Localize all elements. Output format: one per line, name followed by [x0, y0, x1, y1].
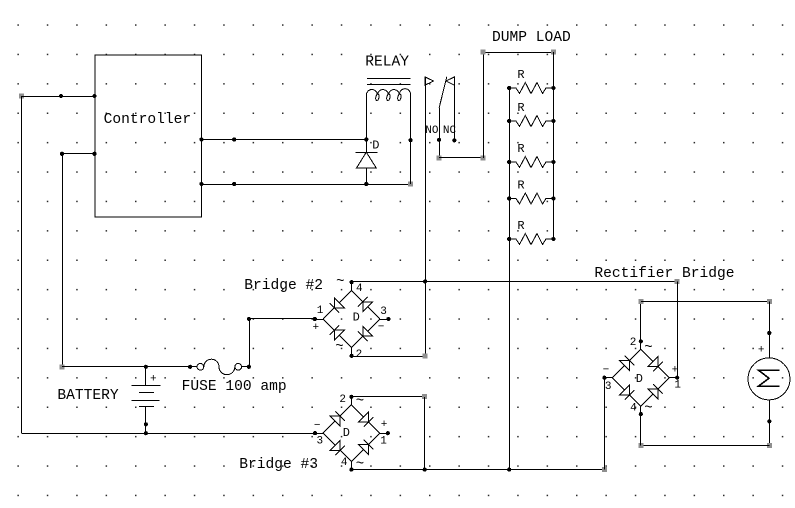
wire NO contact to dump load — [439, 155, 485, 160]
svg-text:1: 1 — [674, 380, 681, 392]
label Bridge #2 — [244, 278, 323, 294]
label rectifier tilde bottom — [644, 400, 652, 416]
wire controller to relay top — [199, 137, 368, 141]
label FUSE 100 amp — [182, 379, 287, 395]
svg-text:D: D — [353, 310, 360, 324]
svg-text:RELAY: RELAY — [365, 55, 409, 71]
wire bottom battery bus — [22, 431, 316, 435]
label NC — [443, 125, 457, 137]
label Bridge #3 tilde bottom — [356, 456, 364, 472]
svg-text:~: ~ — [335, 339, 343, 355]
svg-text:+: + — [758, 344, 765, 356]
label rectifier pin 2 — [630, 337, 637, 349]
wire Bridge #2 pin 4 to rectifier pin 1 — [352, 279, 680, 284]
svg-text:~: ~ — [336, 274, 344, 290]
svg-text:3: 3 — [380, 306, 387, 318]
label Bridge #3 minus — [314, 420, 321, 432]
label Bridge #3 — [239, 457, 318, 473]
wire rectifier pin 1 drop — [677, 281, 679, 377]
svg-text:3: 3 — [316, 436, 323, 448]
svg-text:FUSE 100 amp: FUSE 100 amp — [182, 379, 287, 395]
bridge rectifier Bridge #3 — [313, 395, 390, 472]
svg-text:R: R — [517, 68, 524, 82]
svg-text:R: R — [517, 101, 524, 115]
label R1 — [517, 68, 524, 82]
svg-text:R: R — [517, 142, 524, 156]
controller box U1 — [95, 55, 201, 217]
label Bridge #2 pin 3 — [380, 306, 387, 318]
svg-text:+: + — [672, 364, 679, 376]
svg-text:NO: NO — [425, 125, 439, 137]
svg-text:2: 2 — [630, 337, 637, 349]
svg-text:1: 1 — [317, 305, 324, 317]
svg-text:4: 4 — [356, 283, 363, 295]
label Bridge #2 tilde top — [336, 274, 344, 290]
wire Bridge #3 pin 4 bus — [351, 467, 607, 472]
label R2 — [517, 101, 524, 115]
svg-text:~: ~ — [644, 400, 652, 416]
svg-text:D: D — [343, 426, 350, 440]
svg-text:Rectifier Bridge: Rectifier Bridge — [594, 266, 734, 282]
label rectifier pin 3 — [605, 381, 612, 393]
relay K1 core — [367, 79, 411, 85]
svg-text:2: 2 — [356, 349, 363, 361]
svg-text:DUMP LOAD: DUMP LOAD — [492, 30, 571, 46]
label Bridge #3 pin 4 — [341, 457, 348, 469]
wire left vertical rail — [21, 96, 23, 433]
label Bridge #3 plus — [381, 419, 388, 431]
bridge rectifier Bridge #2 — [313, 280, 391, 358]
label Rectifier Bridge — [594, 266, 734, 282]
label R5 — [517, 219, 524, 233]
resistor R1 dump load — [507, 83, 555, 94]
resistor R2 dump load — [507, 116, 555, 127]
svg-text:NC: NC — [443, 125, 457, 137]
wire Bridge #3 pin 2 loop — [351, 394, 427, 472]
label R3 — [517, 142, 524, 156]
label R4 — [517, 178, 524, 192]
svg-text:2: 2 — [339, 394, 346, 406]
label Bridge #3 D — [343, 426, 350, 440]
generator G1 — [748, 358, 790, 400]
svg-text:~: ~ — [644, 340, 652, 356]
svg-text:R: R — [517, 219, 524, 233]
battery B1 — [131, 367, 160, 433]
label rectifier minus — [603, 364, 610, 376]
svg-text:+: + — [150, 373, 157, 385]
wire fuse bus — [62, 365, 251, 369]
wire second vertical to fuse bus — [60, 154, 65, 369]
label RELAY — [365, 55, 409, 71]
svg-text:−: − — [314, 420, 321, 432]
label battery plus — [150, 373, 157, 385]
svg-text:−: − — [378, 321, 385, 333]
label Bridge #2 tilde bottom — [335, 339, 343, 355]
wire rectifier pin 2 to generator top — [638, 299, 772, 358]
label BATTERY — [57, 388, 119, 404]
switch pole line — [423, 77, 434, 357]
label Bridge #3 tilde top — [356, 394, 364, 410]
svg-text:4: 4 — [341, 457, 348, 469]
switch NC contact — [446, 77, 456, 143]
wire dump load top — [481, 50, 556, 55]
label Bridge #2 plus — [312, 322, 319, 334]
label generator plus — [758, 344, 765, 356]
label Bridge #3 pin 1 — [380, 436, 387, 448]
wire rectifier pin 3 drop — [604, 378, 606, 470]
relay left leg — [366, 95, 368, 140]
wire from left handle to controller — [19, 94, 97, 99]
label Bridge #2 pin 2 — [356, 349, 363, 361]
wire Bridge #2 pin 2 to switch pole — [352, 354, 428, 359]
svg-text:Controller: Controller — [104, 112, 192, 128]
label rectifier tilde top — [644, 340, 652, 356]
wire controller lower-left stub — [60, 152, 97, 156]
bridge rectifier main — [602, 339, 679, 416]
wire controller to relay bottom — [199, 182, 413, 187]
switch NO blade — [437, 77, 447, 161]
resistor R3 dump load — [507, 157, 555, 168]
label rectifier plus — [672, 364, 679, 376]
label rectifier pin 1 — [674, 380, 681, 392]
svg-text:1: 1 — [380, 436, 387, 448]
svg-text:D: D — [636, 372, 643, 386]
svg-text:3: 3 — [605, 381, 612, 393]
label Bridge #2 minus — [378, 321, 385, 333]
wire dump load left drop — [483, 52, 485, 158]
svg-text:+: + — [381, 419, 388, 431]
svg-text:BATTERY: BATTERY — [57, 388, 119, 404]
wire dump load left rail — [509, 88, 511, 470]
label rectifier D — [636, 372, 643, 386]
relay K1 coil — [366, 89, 410, 101]
label Bridge #2 pin 1 — [317, 305, 324, 317]
svg-text:R: R — [517, 178, 524, 192]
wire fuse to Bridge #2 pin 1 — [247, 317, 315, 367]
label Bridge #2 pin 4 — [356, 283, 363, 295]
label NO — [425, 125, 439, 137]
label Bridge #3 pin 2 — [339, 394, 346, 406]
svg-text:+: + — [312, 322, 319, 334]
label Bridge #3 pin 3 — [316, 436, 323, 448]
label Bridge #2 D — [353, 310, 360, 324]
svg-text:Bridge #3: Bridge #3 — [239, 457, 318, 473]
wire generator bottom to rectifier pin 4 — [638, 400, 772, 448]
resistor R5 dump load — [507, 234, 555, 245]
resistor R4 dump load — [507, 193, 555, 204]
wire dump load right rail — [553, 52, 555, 239]
fuse F1 100 amp — [197, 359, 242, 375]
label rectifier pin 4 — [630, 402, 637, 414]
svg-text:−: − — [603, 364, 610, 376]
svg-text:D: D — [372, 139, 379, 153]
relay right leg — [409, 95, 413, 184]
svg-text:4: 4 — [630, 402, 637, 414]
label D relay diode — [372, 139, 379, 153]
diode D across relay coil — [355, 140, 377, 185]
svg-text:Bridge #2: Bridge #2 — [244, 278, 323, 294]
label DUMP LOAD — [492, 30, 571, 46]
